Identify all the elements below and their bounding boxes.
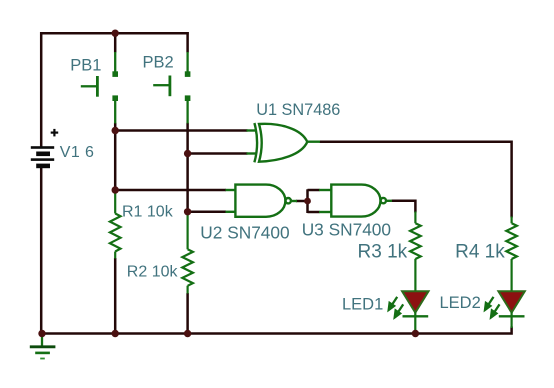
wire: U2 top input horizontal xyxy=(115,189,226,192)
wire: left vertical from top rail to battery + xyxy=(40,32,43,147)
wire: U3 top input horizontal xyxy=(308,189,320,192)
node: top rail / PB1 junction xyxy=(112,30,119,37)
wire: U2 bottom input horizontal xyxy=(188,211,226,214)
wire: XOR bottom input horizontal xyxy=(188,152,248,155)
node: R1 bottom rail junction xyxy=(112,330,119,337)
svg-text:LED2: LED2 xyxy=(440,294,481,312)
svg-text:R2 10k: R2 10k xyxy=(127,264,179,281)
wire: XOR output across to R4 xyxy=(320,142,512,218)
wire: top rail xyxy=(40,32,189,35)
wire: XOR top input horizontal xyxy=(115,129,247,132)
wire: R2 bottom to rail xyxy=(186,293,189,334)
LED1 emission arrows xyxy=(389,297,404,318)
diode LED1 xyxy=(402,291,428,312)
node: ground junction xyxy=(38,330,45,337)
wire: battery - down to bottom rail xyxy=(40,168,43,335)
battery plus sign xyxy=(51,129,59,137)
resistor R4 1k xyxy=(506,217,517,292)
svg-text:U2 SN7400: U2 SN7400 xyxy=(200,223,289,243)
op-amp U1 xor gate SN7486 xyxy=(247,123,321,162)
svg-text:LED1: LED1 xyxy=(342,295,383,313)
node: LED1 bottom rail junction xyxy=(412,330,419,337)
wire: PB1 bottom dark segment down through XOR junction to R1 xyxy=(114,123,117,193)
svg-text:R1 10k: R1 10k xyxy=(122,204,174,221)
resistor R1 10k xyxy=(110,192,121,259)
node: R2 bottom rail junction xyxy=(184,330,191,337)
node: XOR top input junction xyxy=(112,127,119,134)
resistor R3 1k xyxy=(410,212,421,292)
diode LED2 xyxy=(498,291,524,312)
LED2 emission arrows xyxy=(485,297,500,318)
ground xyxy=(41,334,43,346)
wire: PB1 top dark segment xyxy=(114,33,117,52)
svg-text:V1 6: V1 6 xyxy=(60,144,95,161)
wire: U3 input vertical bar xyxy=(306,189,309,213)
svg-text:U1 SN7486: U1 SN7486 xyxy=(256,101,340,119)
pushbutton PB1 xyxy=(81,52,115,123)
wire: U3 bottom input horizontal xyxy=(308,211,320,214)
svg-text:U3 SN7400: U3 SN7400 xyxy=(302,219,391,239)
node: junction between U2 and U3 xyxy=(304,198,311,205)
node: U2 top input junction xyxy=(112,186,119,193)
nand gate U2 SN7400 xyxy=(226,185,298,217)
pushbutton PB2 xyxy=(153,52,187,123)
wire: U3 output to R3 xyxy=(392,201,416,213)
wire: R1 bottom to rail xyxy=(114,258,117,334)
svg-text:PB2: PB2 xyxy=(143,54,174,72)
node: U2 bottom input junction xyxy=(184,208,191,215)
wire: U2 output to junction xyxy=(296,200,308,203)
svg-text:R4 1k: R4 1k xyxy=(455,242,505,263)
wire: PB2 top dark segment xyxy=(186,32,189,53)
svg-text:R3 1k: R3 1k xyxy=(358,242,408,263)
node: XOR bottom input junction xyxy=(184,150,191,157)
wire: bottom rail with corner up to LED2 xyxy=(40,327,512,334)
resistor R2 10k xyxy=(182,214,193,294)
svg-text:PB1: PB1 xyxy=(70,57,101,75)
wire: PB2 bottom dark segment down to R2 xyxy=(186,123,189,215)
nand gate U3 SN7400 xyxy=(319,185,392,217)
battery V1 xyxy=(31,146,54,168)
